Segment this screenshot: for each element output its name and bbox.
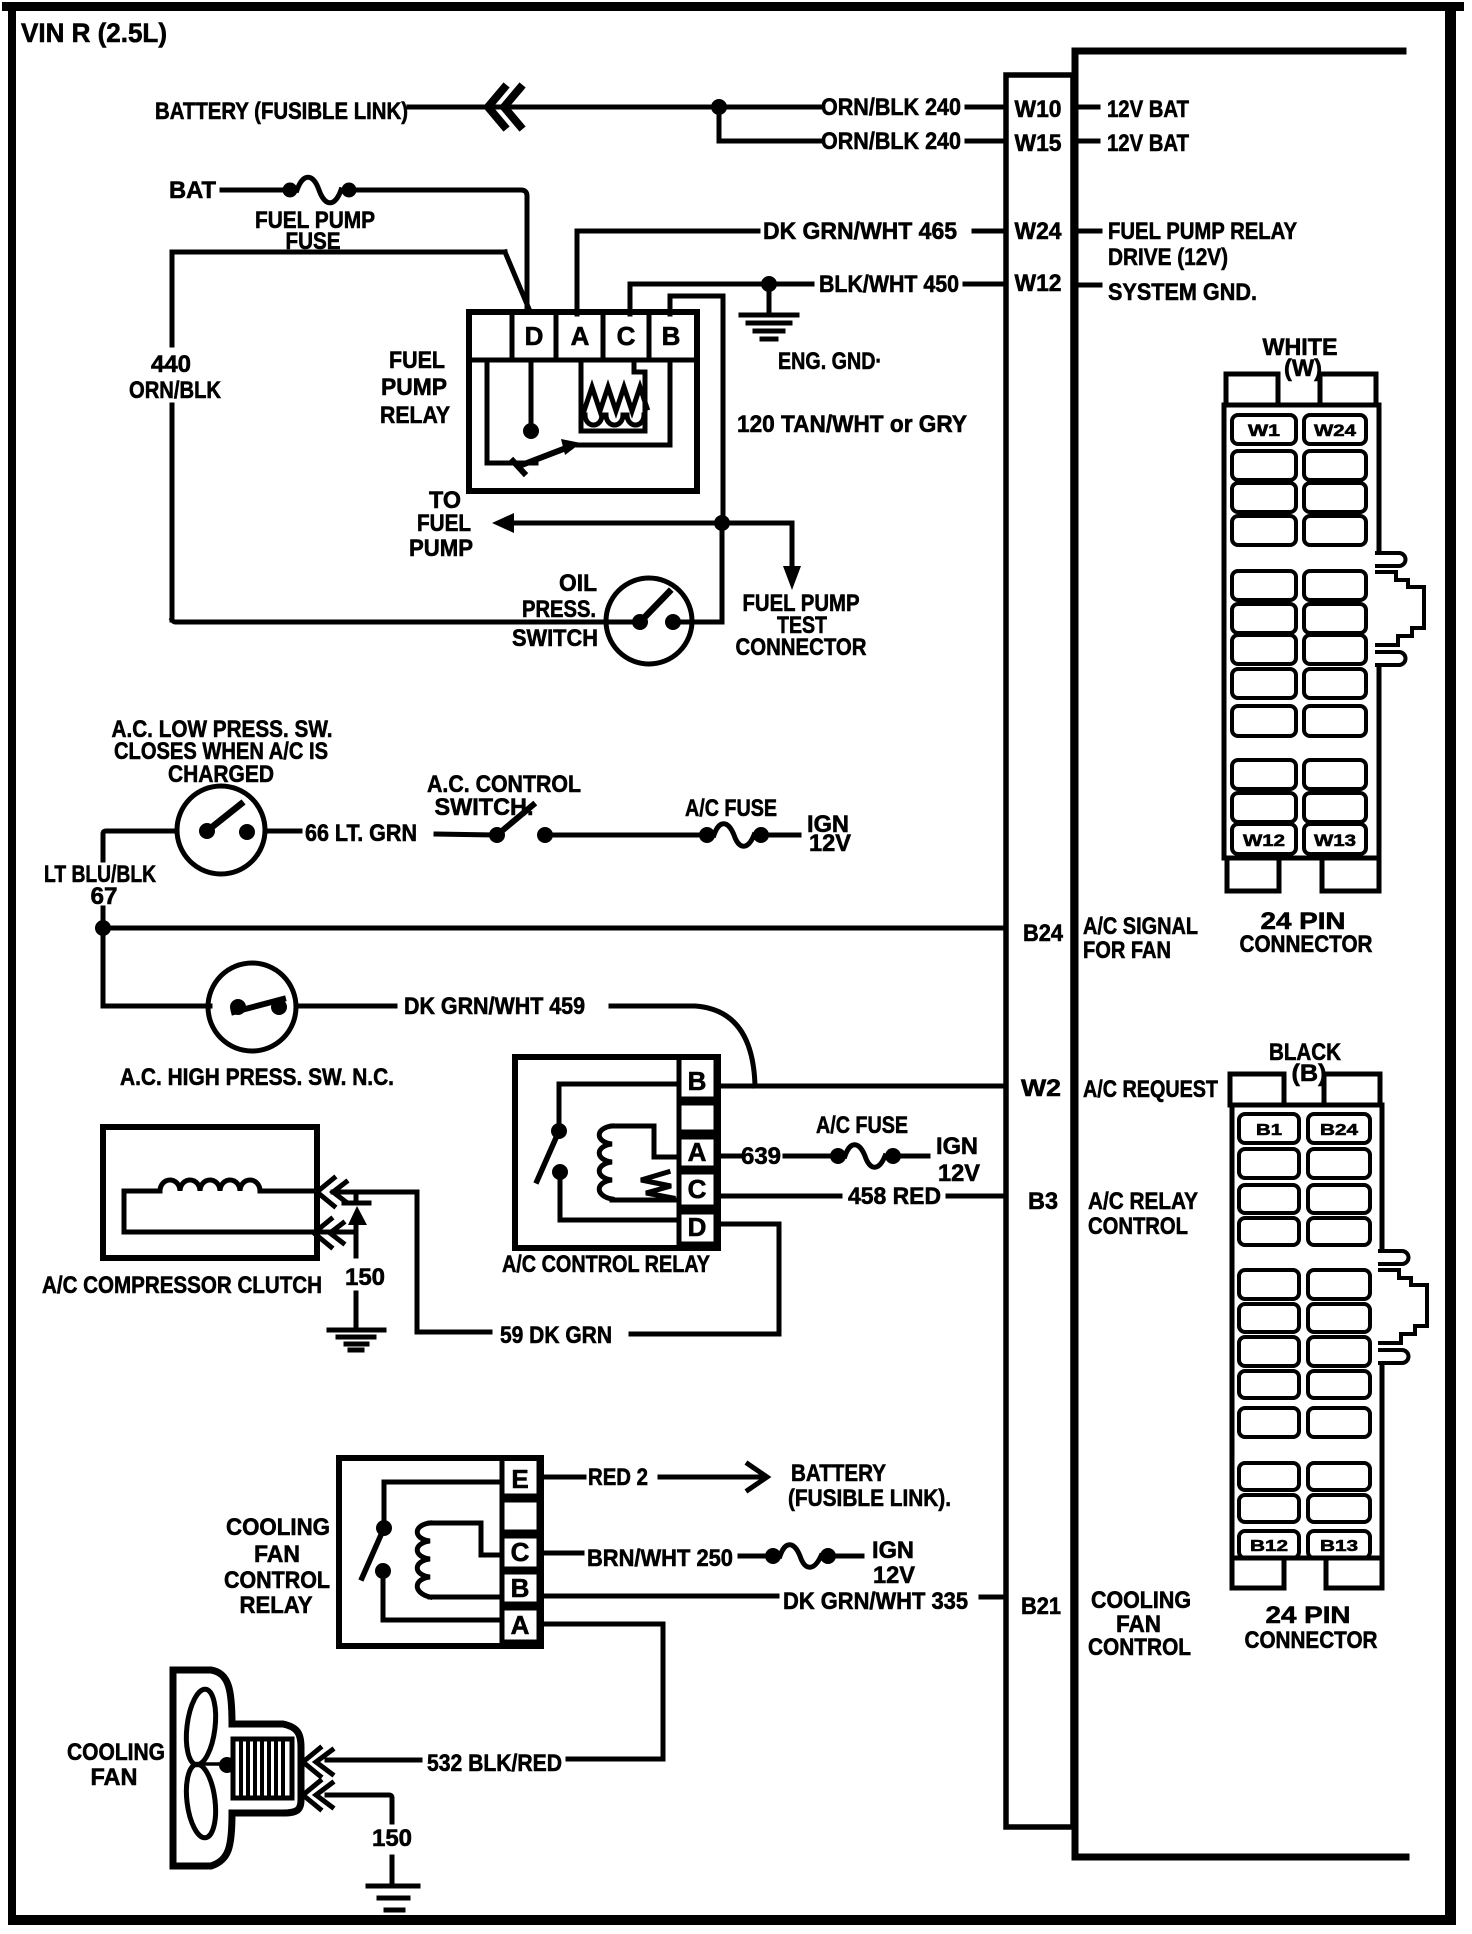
wire battery to W15: [719, 107, 1004, 141]
relay switch contact dot: [523, 423, 539, 439]
wire 440 to oil pressure switch: [172, 620, 606, 622]
a/c compressor clutch box: [103, 1127, 317, 1258]
wire DK GRN/WHT 459: [296, 1006, 755, 1086]
svg-text:BATTERY: BATTERY: [791, 1460, 886, 1487]
svg-text:CONNECTOR: CONNECTOR: [1245, 1627, 1378, 1654]
wire control switch to fuse: [545, 833, 700, 838]
svg-text:B: B: [511, 1573, 530, 1603]
wire C to B3 (458 RED): [718, 1194, 1004, 1199]
svg-text:12V BAT: 12V BAT: [1107, 130, 1189, 157]
wire fuse to relay pin D: [349, 190, 527, 312]
svg-text:150: 150: [372, 1825, 412, 1852]
svg-text:B12: B12: [1250, 1538, 1288, 1555]
svg-text:(W): (W): [1284, 355, 1322, 382]
fan blade bottom: [183, 1763, 220, 1840]
wire fan ground: [327, 1795, 392, 1883]
svg-text:B21: B21: [1021, 1593, 1061, 1620]
wire to B24: [103, 926, 1004, 931]
svg-text:24 PIN: 24 PIN: [1266, 1602, 1351, 1629]
fan connector chevrons (532): [303, 1748, 332, 1776]
svg-text:RED 2: RED 2: [588, 1464, 648, 1491]
svg-text:B3: B3: [1028, 1188, 1058, 1215]
white connector top tabs: [1226, 374, 1278, 405]
svg-text:ORN/BLK 240: ORN/BLK 240: [821, 128, 961, 155]
svg-text:IGN: IGN: [872, 1537, 914, 1564]
wire C to ign fuse: [541, 1551, 582, 1556]
junction node 67: [95, 920, 111, 936]
white connector bottom tabs: [1227, 858, 1279, 891]
wire B to W2: [718, 1084, 1004, 1089]
svg-text:OIL: OIL: [559, 570, 597, 597]
wire down to high press switch: [101, 928, 106, 1006]
svg-text:150: 150: [345, 1264, 385, 1291]
clutch coil line 1: [124, 1189, 313, 1194]
fan blade top: [182, 1688, 219, 1767]
wire 440 diagonal to relay: [505, 252, 529, 309]
clutch coil bumps: [160, 1180, 260, 1191]
svg-text:W15: W15: [1015, 130, 1062, 157]
svg-text:E: E: [511, 1464, 528, 1494]
svg-text:DK GRN/WHT 465: DK GRN/WHT 465: [763, 218, 957, 245]
relay interior left leg: [487, 362, 536, 463]
svg-text:12V: 12V: [809, 830, 851, 857]
svg-text:B: B: [688, 1066, 707, 1096]
black connector top tabs: [1230, 1074, 1284, 1105]
fan motor grille: [233, 1739, 292, 1798]
svg-text:ORN/BLK 240: ORN/BLK 240: [821, 94, 961, 121]
svg-text:B24: B24: [1023, 920, 1064, 947]
a/c relay switch: [551, 1123, 567, 1139]
engine ground symbol: [767, 284, 772, 313]
svg-text:SYSTEM GND.: SYSTEM GND.: [1108, 279, 1257, 306]
svg-text:B: B: [662, 321, 681, 351]
svg-text:C: C: [617, 321, 636, 351]
svg-text:CONNECTOR: CONNECTOR: [736, 634, 867, 661]
svg-text:(FUSIBLE LINK).: (FUSIBLE LINK).: [788, 1485, 951, 1512]
svg-text:FOR FAN: FOR FAN: [1083, 937, 1171, 964]
wire BAT to fuse: [222, 188, 290, 193]
svg-text:A/C CONTROL RELAY: A/C CONTROL RELAY: [502, 1251, 710, 1278]
black connector key: [1380, 1251, 1409, 1264]
svg-text:BLK/WHT 450: BLK/WHT 450: [819, 271, 959, 298]
svg-text:COOLING: COOLING: [1091, 1587, 1191, 1614]
wire relay A to W24: [577, 231, 1004, 314]
white pins right column: [1304, 415, 1366, 854]
oil pressure switch: [606, 578, 692, 664]
svg-text:532 BLK/RED: 532 BLK/RED: [427, 1750, 562, 1777]
white connector key: [1377, 553, 1406, 566]
relay coil zigzag: [584, 387, 647, 411]
svg-text:DK GRN/WHT 335: DK GRN/WHT 335: [783, 1588, 968, 1615]
relay coil loops: [585, 415, 644, 425]
diode: [344, 1192, 369, 1203]
wire 440 ORN/BLK: [172, 252, 505, 620]
svg-text:A: A: [511, 1610, 530, 1640]
svg-text:SWITCH: SWITCH: [512, 625, 598, 652]
black pins left column: [1239, 1114, 1299, 1558]
a.c. control switch: [489, 827, 505, 843]
wire stub W12 right: [1076, 283, 1100, 288]
ground symbol (fan 150): [368, 1886, 418, 1910]
svg-text:639: 639: [741, 1143, 781, 1170]
svg-text:W1: W1: [1248, 421, 1280, 440]
svg-text:440: 440: [151, 351, 191, 378]
wire A to fan (532 BLK/RED): [327, 1624, 663, 1760]
svg-text:A: A: [688, 1137, 707, 1167]
wire 66 LT GRN: [265, 829, 300, 834]
a.c. low pressure switch: [177, 786, 265, 874]
a/c control relay box: [515, 1057, 718, 1248]
svg-text:A.C. HIGH PRESS. SW. N.C.: A.C. HIGH PRESS. SW. N.C.: [120, 1064, 394, 1091]
fuel pump fuse: [283, 183, 298, 198]
svg-text:W13: W13: [1314, 831, 1356, 850]
wire test connector drop: [722, 523, 792, 568]
svg-text:FAN: FAN: [91, 1764, 138, 1791]
wire battery feed to W10: [409, 105, 1004, 110]
ECM body box: [1075, 51, 1406, 1857]
svg-text:D: D: [688, 1212, 707, 1242]
svg-text:12V: 12V: [873, 1562, 915, 1589]
wire to control switch: [436, 834, 492, 835]
cf relay switch: [376, 1520, 392, 1536]
ECM connector pin strip: [1006, 75, 1073, 1827]
svg-text:A/C REQUEST: A/C REQUEST: [1083, 1076, 1218, 1103]
wire A to 639 fuse: [718, 1154, 740, 1159]
black connector bottom tabs: [1232, 1558, 1284, 1588]
a/c relay coil: [599, 1126, 612, 1199]
white pins left column: [1232, 415, 1296, 854]
chevron connector on battery wire: [488, 88, 520, 126]
svg-text:W12: W12: [1243, 831, 1285, 850]
svg-text:A/C SIGNAL: A/C SIGNAL: [1083, 913, 1198, 940]
relay coil outline: [581, 362, 645, 431]
svg-text:B24: B24: [1320, 1122, 1358, 1139]
svg-text:67: 67: [91, 883, 118, 910]
svg-text:120 TAN/WHT or GRY: 120 TAN/WHT or GRY: [737, 411, 967, 438]
svg-text:IGN: IGN: [936, 1133, 978, 1160]
relay switch common line: [578, 362, 670, 445]
svg-text:CONNECTOR: CONNECTOR: [1240, 931, 1373, 958]
svg-text:B13: B13: [1320, 1538, 1358, 1555]
svg-text:DRIVE (12V): DRIVE (12V): [1108, 244, 1228, 271]
svg-text:A/C FUSE: A/C FUSE: [816, 1112, 908, 1139]
ground symbol (150): [329, 1330, 384, 1350]
fan connector chevrons (ground): [303, 1781, 332, 1809]
ign fuse: [765, 1548, 781, 1564]
clutch connector chevrons: [317, 1178, 346, 1206]
svg-text:FUEL: FUEL: [417, 510, 471, 537]
wire stub W10 right: [1076, 105, 1098, 110]
svg-text:COOLING: COOLING: [67, 1739, 165, 1766]
a/c relay pin boxes: [679, 1059, 716, 1244]
svg-text:W10: W10: [1015, 96, 1062, 123]
svg-text:A/C FUSE: A/C FUSE: [685, 795, 777, 822]
svg-text:C: C: [511, 1537, 530, 1567]
wire to high press switch: [103, 1004, 210, 1009]
wire B to B21 (DK GRN/WHT 335): [541, 1596, 1004, 1597]
svg-text:PRESS.: PRESS.: [522, 596, 596, 623]
svg-text:A/C RELAY: A/C RELAY: [1088, 1188, 1198, 1215]
junction system ground: [761, 276, 777, 292]
svg-text:BRN/WHT 250: BRN/WHT 250: [587, 1545, 733, 1572]
svg-text:CONTROL: CONTROL: [1088, 1634, 1191, 1661]
svg-text:ENG. GND·: ENG. GND·: [778, 348, 882, 375]
svg-text:(B): (B): [1292, 1060, 1327, 1087]
svg-text:VIN R (2.5L): VIN R (2.5L): [21, 18, 167, 48]
svg-text:PUMP: PUMP: [409, 535, 473, 562]
svg-text:SWITCH.: SWITCH.: [435, 794, 534, 821]
wire E to battery: [541, 1475, 584, 1480]
wire to fuel pump (arrow): [510, 521, 722, 526]
a/c fuse (ign row): [699, 827, 715, 843]
svg-text:12V BAT: 12V BAT: [1107, 96, 1189, 123]
svg-text:FUEL: FUEL: [389, 347, 445, 374]
svg-text:A: A: [571, 321, 590, 351]
wire relay B to test connector junction: [670, 296, 723, 523]
wire stub W15 right: [1076, 139, 1098, 144]
black connector body: [1232, 1105, 1382, 1558]
svg-text:W24: W24: [1015, 218, 1063, 245]
relay pin D leg: [529, 362, 534, 424]
svg-text:B1: B1: [1256, 1122, 1282, 1139]
svg-text:DK GRN/WHT 459: DK GRN/WHT 459: [404, 993, 585, 1020]
wire D to 59 DK GRN: [333, 1192, 779, 1334]
svg-text:PUMP: PUMP: [381, 374, 447, 401]
svg-text:BAT: BAT: [169, 177, 216, 204]
cooling fan shroud: [173, 1670, 301, 1866]
svg-text:RELAY: RELAY: [240, 1592, 313, 1619]
cf relay coil: [417, 1523, 430, 1597]
a.c. high pressure switch: [208, 963, 296, 1051]
cf relay pin boxes: [502, 1460, 539, 1642]
svg-text:W12: W12: [1015, 270, 1062, 297]
white connector body: [1224, 405, 1379, 858]
junction battery wire: [711, 99, 727, 115]
svg-text:BATTERY (FUSIBLE LINK): BATTERY (FUSIBLE LINK): [155, 98, 408, 125]
wire relay C to W12: [630, 284, 1004, 314]
svg-text:12V: 12V: [938, 1160, 980, 1187]
cooling fan control relay box: [339, 1458, 541, 1646]
black pins right column: [1308, 1114, 1370, 1558]
relay pin row line: [471, 358, 695, 363]
wire oil switch to fuel pump node: [694, 523, 722, 622]
border frame: [2, 2, 1464, 11]
svg-text:A/C COMPRESSOR CLUTCH: A/C COMPRESSOR CLUTCH: [42, 1272, 322, 1299]
arrow to battery: [748, 1464, 767, 1490]
relay switch blade: [513, 448, 566, 473]
wire clutch feed: [314, 1192, 417, 1232]
svg-text:FUEL PUMP RELAY: FUEL PUMP RELAY: [1108, 218, 1297, 245]
fuel pump relay box: [469, 312, 697, 491]
svg-text:CONTROL: CONTROL: [1088, 1213, 1188, 1240]
svg-text:458 RED: 458 RED: [848, 1183, 941, 1210]
wire LT BLU/BLK 67: [103, 831, 177, 928]
svg-text:CONTROL: CONTROL: [224, 1567, 330, 1594]
relay pin dividers: [512, 314, 649, 360]
svg-text:D: D: [525, 321, 544, 351]
svg-text:ORN/BLK: ORN/BLK: [129, 377, 222, 404]
junction fuel pump node: [714, 515, 730, 531]
svg-text:RELAY: RELAY: [380, 402, 450, 429]
svg-text:66 LT. GRN: 66 LT. GRN: [305, 820, 417, 847]
wire stub W24 right: [1076, 229, 1100, 234]
svg-text:59 DK GRN: 59 DK GRN: [500, 1322, 612, 1349]
fan hub: [201, 1762, 222, 1766]
clutch line 2: [124, 1191, 313, 1232]
svg-text:W2: W2: [1021, 1075, 1061, 1102]
a/c fuse (639 row): [830, 1148, 846, 1164]
svg-text:C: C: [688, 1174, 707, 1204]
svg-text:W24: W24: [1314, 421, 1357, 440]
svg-text:COOLING: COOLING: [226, 1514, 330, 1541]
svg-text:FAN: FAN: [254, 1541, 300, 1568]
